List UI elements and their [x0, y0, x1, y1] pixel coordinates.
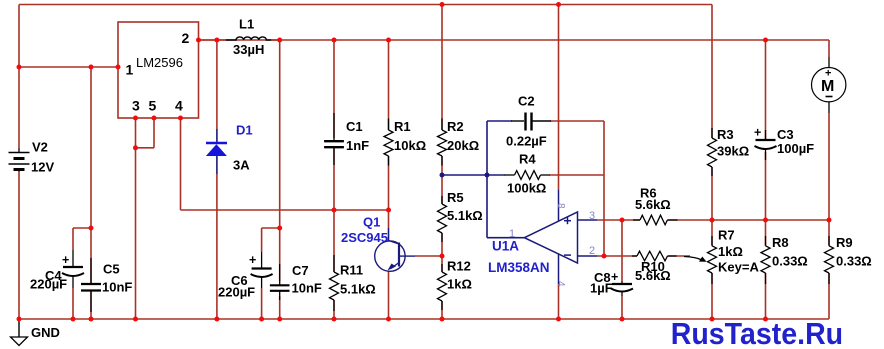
- resistor R10: [632, 255, 637, 257]
- wire pin3 column: [135, 118, 137, 319]
- junction dots: [440, 2, 445, 7]
- wire C4 bottom: [72, 288, 74, 319]
- svg-text:3: 3: [132, 98, 140, 114]
- pin dot 5: [152, 116, 157, 121]
- wire R1 column: [388, 40, 390, 210]
- resistor R11: [333, 255, 335, 272]
- svg-text:C3: C3: [777, 127, 794, 142]
- svg-text:+: +: [754, 126, 761, 140]
- capacitor C7: [279, 264, 281, 285]
- svg-text:10nF: 10nF: [292, 281, 322, 296]
- wire D1 column upper: [216, 40, 218, 129]
- potentiometer R7: [711, 236, 713, 246]
- wire output rail y40: [199, 39, 830, 41]
- svg-text:0.33Ω: 0.33Ω: [772, 254, 808, 269]
- wire C2 row: [487, 120, 512, 122]
- svg-text:100µF: 100µF: [777, 141, 814, 156]
- wire C1 to feedback row: [333, 148, 335, 210]
- svg-text:33µH: 33µH: [233, 42, 264, 57]
- wire pin1 row: [19, 66, 118, 68]
- wire C1 column upper: [333, 40, 335, 138]
- pin dot 1: [116, 65, 121, 70]
- svg-text:U1A: U1A: [492, 239, 519, 254]
- wire Q1 base wire: [388, 210, 390, 228]
- capacitor C8: [621, 281, 623, 283]
- wire left column: [18, 5, 20, 149]
- svg-text:5.1kΩ: 5.1kΩ: [447, 208, 483, 223]
- motor M: [828, 57, 830, 68]
- wire R4 row: [442, 174, 505, 176]
- svg-text:GND: GND: [31, 325, 60, 340]
- svg-text:R2: R2: [447, 119, 464, 134]
- svg-text:39kΩ: 39kΩ: [717, 144, 749, 159]
- svg-text:C7: C7: [292, 263, 309, 278]
- wire R8 column: [765, 220, 767, 319]
- wire op-amp V+ column: [558, 5, 560, 191]
- wire C3 column: [765, 40, 767, 139]
- svg-text:LM2596: LM2596: [136, 55, 183, 70]
- svg-text:2: 2: [182, 30, 190, 46]
- wire Q1 emitter wire: [388, 272, 390, 319]
- svg-text:L1: L1: [239, 17, 254, 32]
- wire pin2 row: [597, 255, 690, 257]
- svg-text:1kΩ: 1kΩ: [718, 244, 743, 259]
- wire R3 column: [711, 5, 713, 221]
- svg-text:10nF: 10nF: [102, 280, 132, 295]
- wire R5 column: [441, 175, 443, 319]
- svg-text:1kΩ: 1kΩ: [447, 277, 472, 292]
- resistor R12: [441, 264, 443, 272]
- capacitor C4: [72, 250, 74, 266]
- wire pin3 row: [597, 219, 829, 221]
- svg-text:1µF: 1µF: [590, 281, 613, 296]
- svg-text:C5: C5: [103, 262, 120, 277]
- svg-text:Q1: Q1: [363, 215, 380, 230]
- resistor R6: [633, 219, 640, 221]
- wire bottom rail: [19, 318, 829, 320]
- svg-text:Key=A: Key=A: [718, 260, 759, 275]
- pin dot 3: [133, 116, 138, 121]
- op-amp U1A: [524, 212, 577, 263]
- svg-text:R4: R4: [519, 152, 536, 167]
- wire R11 column: [333, 210, 335, 319]
- wire pin4 column: [180, 118, 182, 210]
- svg-text:3: 3: [589, 210, 595, 222]
- wire op-amp V- to ground: [558, 284, 560, 319]
- wire C5 column: [90, 67, 92, 283]
- svg-text:R1: R1: [394, 119, 411, 134]
- svg-text:12V: 12V: [31, 160, 54, 175]
- wire C4 stub: [73, 227, 91, 229]
- svg-text:R5: R5: [447, 190, 464, 205]
- resistor R3: [711, 128, 713, 138]
- inductor L1: [226, 37, 271, 40]
- wire L1 right: [271, 39, 280, 41]
- svg-text:+: +: [62, 253, 69, 267]
- junction dot R4 left navy: [440, 173, 445, 178]
- svg-text:C1: C1: [346, 119, 363, 134]
- battery V2: [18, 148, 20, 152]
- svg-text:5: 5: [149, 98, 157, 114]
- wire C8 column: [621, 220, 623, 281]
- svg-text:3A: 3A: [233, 158, 250, 173]
- svg-text:R7: R7: [718, 228, 735, 243]
- wire pin5 jog: [153, 118, 155, 148]
- svg-text:8: 8: [555, 203, 566, 209]
- svg-text:20kΩ: 20kΩ: [447, 138, 479, 153]
- svg-text:M: M: [821, 78, 834, 95]
- svg-text:5.6kΩ: 5.6kΩ: [635, 268, 671, 283]
- resistor R4: [504, 174, 515, 176]
- wire pin1 feedback leg: [486, 175, 488, 238]
- wire battery to bottom: [18, 172, 20, 319]
- svg-text:V2: V2: [32, 140, 48, 155]
- svg-text:100kΩ: 100kΩ: [507, 181, 546, 196]
- wire C2 right leg: [603, 121, 605, 256]
- wire C6 bottom: [261, 288, 263, 319]
- svg-text:1nF: 1nF: [346, 138, 369, 153]
- wire C2 left leg: [486, 121, 488, 175]
- svg-text:1: 1: [509, 228, 515, 240]
- svg-text:5.1kΩ: 5.1kΩ: [340, 282, 376, 297]
- capacitor C3: [765, 130, 767, 139]
- ground: [18, 319, 20, 337]
- svg-text:1: 1: [126, 62, 134, 78]
- svg-text:D1: D1: [236, 123, 253, 138]
- svg-text:220µF: 220µF: [218, 285, 255, 300]
- capacitor C6: [261, 252, 263, 268]
- wire R2 column: [441, 5, 443, 176]
- capacitor C2: [511, 120, 524, 122]
- wire C7 column: [279, 40, 281, 281]
- svg-text:R11: R11: [340, 263, 363, 278]
- capacitor C5: [90, 258, 92, 283]
- wire top rail: [19, 4, 712, 6]
- svg-text:4: 4: [555, 281, 566, 287]
- junction dot C2 leg navy: [485, 173, 490, 178]
- svg-text:R12: R12: [447, 259, 471, 274]
- wire D1 column lower: [216, 174, 218, 319]
- diode D1: [216, 129, 218, 143]
- svg-text:4: 4: [175, 98, 183, 114]
- svg-text:0.22µF: 0.22µF: [506, 134, 547, 149]
- wire R7 column: [711, 220, 713, 319]
- svg-text:220µF: 220µF: [30, 277, 67, 292]
- svg-text:+: +: [249, 253, 256, 267]
- transistor Q1: [388, 228, 390, 241]
- resistor R1: [388, 119, 390, 131]
- wire R9 column: [828, 220, 830, 319]
- resistor R8: [765, 236, 767, 246]
- svg-text:10kΩ: 10kΩ: [394, 138, 426, 153]
- wire C6 stub: [262, 227, 280, 229]
- wire L1 left: [199, 39, 226, 41]
- regulator U LM2596 box: [118, 22, 199, 118]
- svg-text:2: 2: [589, 245, 595, 257]
- svg-text:R9: R9: [836, 235, 853, 250]
- resistor R5: [441, 196, 443, 204]
- pin dot 4: [178, 116, 183, 121]
- wire Q1 collector wire: [415, 255, 442, 257]
- svg-text:C2: C2: [518, 94, 535, 109]
- svg-text:2SC945: 2SC945: [341, 230, 388, 245]
- svg-text:0.33Ω: 0.33Ω: [836, 254, 872, 269]
- resistor R9: [828, 236, 830, 246]
- svg-text:RusTaste.Ru: RusTaste.Ru: [671, 317, 843, 349]
- svg-text:5.6kΩ: 5.6kΩ: [635, 197, 671, 212]
- wire pin4 feedback row: [181, 209, 389, 211]
- svg-text:LM358AN: LM358AN: [488, 260, 550, 275]
- pin dot 2: [196, 38, 201, 43]
- svg-text:R8: R8: [772, 235, 789, 250]
- resistor R2: [441, 119, 443, 131]
- capacitor C1: [333, 113, 335, 140]
- svg-text:R3: R3: [717, 127, 734, 142]
- wire motor column: [828, 40, 830, 57]
